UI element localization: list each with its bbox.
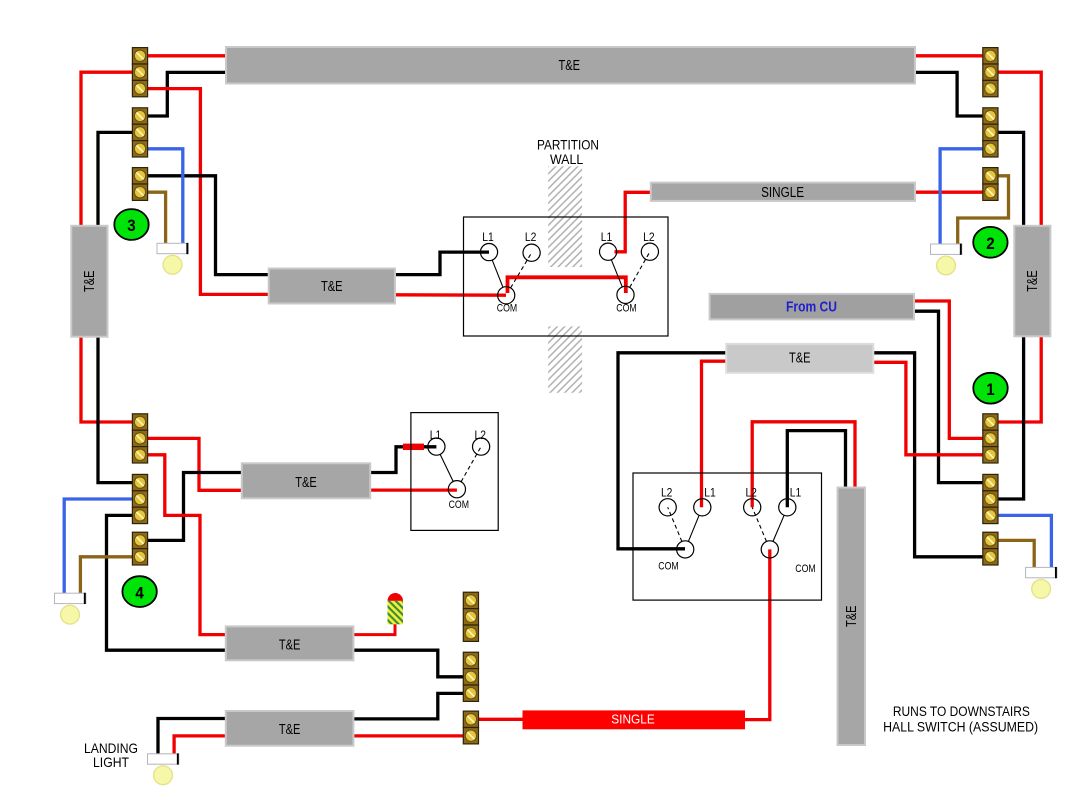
cable From CU [710, 294, 914, 320]
wire brown: TB-R3 screw1 to lamp 2 rose [958, 176, 1009, 245]
cable T&E lower [226, 626, 354, 660]
svg-text:1: 1 [986, 380, 994, 399]
label LANDING LIGHT [84, 740, 138, 770]
terminal block TB-L6 [132, 532, 147, 565]
switch box at partition wall [464, 217, 669, 336]
cable T&E top [226, 47, 915, 84]
wire red: TB-R1 screw2 down right side to TB-R4 screw1 [998, 72, 1042, 422]
svg-text:COM: COM [795, 563, 815, 575]
terminal block TB-L1 [132, 48, 147, 97]
wire red: COM link across partition wall [508, 277, 626, 293]
svg-text:L2: L2 [745, 488, 757, 500]
wire black: TB-L6 screw1 to bedroom T&E cable [147, 473, 243, 541]
svg-text:L2: L2 [661, 488, 673, 500]
svg-text:T&E: T&E [321, 279, 343, 295]
wire brown: TB-R6 screw1 to lamp 1 rose [998, 540, 1035, 567]
wire red: landing lamp T&E to TB-M3 screw2 [352, 734, 464, 737]
svg-text:2: 2 [986, 234, 994, 253]
wire brown: TB-L6 screw2 to lamp 4 rose [80, 557, 133, 594]
wire red: TB-L4 screw2 to bedroom T&E cable [147, 438, 243, 490]
svg-text:L1: L1 [601, 232, 613, 244]
switch SW-B terminal COM [617, 286, 634, 303]
svg-text:L2: L2 [525, 232, 537, 244]
wire red: SINGLE cable to right partition switch L1 [615, 192, 652, 252]
switch SW-D terminal COM [677, 541, 694, 558]
terminal block TB-R6 [983, 532, 998, 565]
terminal block TB-M3 [463, 711, 478, 744]
svg-text:T&E: T&E [844, 605, 860, 627]
switch SW-B terminal L1 [600, 243, 617, 260]
lamp rose 3 top-left [157, 243, 188, 274]
cable T&E landing lamp [226, 711, 354, 746]
lamp rose 1 bottom-right [1026, 567, 1057, 598]
svg-text:From CU: From CU [786, 299, 837, 316]
wire black: landing T&E cable to double switch left COM [618, 353, 728, 549]
lamp rose landing light [148, 753, 179, 784]
svg-text:T&E: T&E [1025, 270, 1041, 292]
switch SW-B levers [611, 252, 650, 288]
lamp rose 2 top-right [931, 244, 962, 275]
wire black: From CU cable to TB-R5 screw1 [913, 311, 983, 482]
switch box bedroom [411, 413, 498, 531]
svg-text:T&E: T&E [82, 270, 98, 292]
wire black: double switch right L1 to downstairs T&E [787, 431, 845, 508]
svg-text:COM: COM [497, 302, 517, 314]
cable SINGLE red [523, 710, 746, 729]
node marker 4 [122, 576, 156, 607]
svg-text:L1: L1 [790, 488, 802, 500]
wire blue: TB-L5 screw2 to lamp 4 rose [64, 499, 133, 593]
svg-text:L2: L2 [475, 430, 487, 442]
node marker 2 [973, 227, 1007, 258]
svg-text:L1: L1 [482, 232, 494, 244]
wire black: landing lamp T&E to landing rose [158, 719, 227, 755]
partition wall upper hatch [548, 166, 582, 267]
switch box double landing [633, 473, 822, 600]
red cap terminator [388, 593, 404, 624]
svg-text:T&E: T&E [279, 637, 301, 653]
svg-text:COM: COM [658, 561, 678, 573]
switch SW-D terminal L2 [659, 499, 676, 516]
terminal block TB-L5 [132, 474, 147, 523]
terminal block TB-M1 [463, 592, 478, 641]
wire red: bedroom T&E cable to switch COM [369, 488, 457, 491]
red sleeve marker on switch L1 wire [403, 444, 424, 450]
cable T&E mid-left [269, 269, 395, 304]
switch SW-E labels [745, 488, 815, 575]
lamp rose 4 mid-left [55, 593, 86, 624]
cable T&E right vertical [1014, 226, 1050, 336]
wire black: TB-L2 screw2 down left side to TB-L5 screw1 [98, 132, 133, 482]
partition wall lower hatch [548, 326, 582, 392]
svg-text:WALL: WALL [550, 151, 583, 167]
wire red: lower T&E cable to red cap terminator [352, 622, 395, 635]
wire red: SINGLE cable to TB-R3 screw2 [914, 191, 983, 194]
wire red: double switch right L2 to downstairs T&E [752, 422, 855, 508]
switch SW-D labels [658, 488, 715, 573]
wire red: landing T&E cable to double switch left L1 [702, 361, 728, 507]
wire black: top T&E cable to TB-L2 screw1 [147, 72, 227, 116]
svg-text:T&E: T&E [295, 475, 317, 491]
wire red: landing T&E cable to TB-R4 screw3 [872, 362, 983, 455]
switch SW-A terminal L1 [480, 244, 497, 261]
terminal block TB-R4 [983, 414, 998, 463]
switch SW-C terminal L2 [473, 438, 490, 455]
svg-text:SINGLE: SINGLE [761, 185, 804, 201]
switch SW-A terminal L2 [523, 244, 540, 261]
cable T&E bedroom [242, 463, 370, 498]
wire black: TB-L3 screw1 to mid T&E cable [147, 176, 270, 275]
wire red: TB-L1 screw1 to top T&E cable [147, 54, 227, 57]
switch SW-E terminal L1 [779, 499, 796, 516]
wire red: TB-L4 screw3 down to lower T&E cable [147, 455, 227, 635]
svg-text:COM: COM [449, 499, 469, 511]
wire red: TB-L1 screw2 down left side to TB-L4 screw1 [81, 72, 133, 422]
terminal block TB-L3 [132, 168, 147, 201]
switch SW-E levers [752, 507, 784, 541]
switch SW-D levers [668, 507, 699, 541]
switch SW-B labels [601, 232, 655, 314]
wire red: double switch right COM to SINGLE red cable [744, 549, 770, 719]
wire brown: TB-L3 screw2 to lamp 3 rose [147, 192, 166, 243]
switch SW-C terminal COM [448, 481, 465, 498]
svg-text:T&E: T&E [279, 722, 301, 738]
node marker 3 [114, 209, 148, 240]
svg-text:RUNS TO DOWNSTAIRS: RUNS TO DOWNSTAIRS [893, 704, 1030, 719]
terminal block TB-R2 [983, 108, 998, 157]
node marker 1 [973, 373, 1007, 404]
wire black: TB-R2 screw2 down right side to TB-R5 screw2 [998, 132, 1024, 499]
svg-text:HALL SWITCH (ASSUMED): HALL SWITCH (ASSUMED) [883, 720, 1038, 735]
wire black: top T&E cable to TB-R2 screw1 [914, 72, 983, 116]
svg-text:3: 3 [127, 216, 135, 235]
wire blue: TB-L2 screw3 to lamp 3 rose [147, 149, 183, 244]
wire red: top T&E cable to TB-R1 screw1 [914, 54, 983, 57]
svg-text:L2: L2 [643, 232, 655, 244]
label RUNS TO DOWNSTAIRS HALL SWITCH [883, 704, 1038, 735]
svg-text:L1: L1 [430, 430, 442, 442]
terminal block TB-L4 [132, 414, 147, 463]
wire black: landing T&E cable to TB-R6 screw2 [872, 353, 983, 557]
wire red: TB-M3 screw1 to SINGLE red cable [477, 718, 524, 721]
svg-text:T&E: T&E [559, 58, 581, 74]
switch SW-E terminal COM [761, 541, 778, 558]
switch SW-A levers [492, 253, 531, 288]
terminal block TB-M2 [463, 652, 478, 701]
switch SW-E terminal L2 [744, 499, 761, 516]
switch SW-C levers [440, 447, 481, 482]
wire black: landing lamp T&E to TB-M2 screw3 [352, 693, 464, 719]
cable T&E left vertical [71, 226, 107, 337]
wire black: TB-L5 screw3 down to lower T&E cable [107, 515, 228, 650]
wire red: mid T&E cable to partition switch COM [394, 293, 506, 297]
switch SW-A terminal COM [498, 287, 515, 304]
wire red: From CU cable to TB-R4 screw2 [913, 301, 983, 438]
terminal block TB-L2 [132, 108, 147, 157]
wire black: lower T&E cable to TB-M2 screw2 [352, 650, 464, 677]
cable T&E landing feed [726, 344, 873, 373]
terminal block TB-R3 [983, 168, 998, 201]
switch SW-A labels [482, 232, 536, 314]
cable T&E downstairs vertical [838, 488, 866, 746]
wire red: landing lamp T&E to landing rose [174, 736, 227, 754]
svg-text:LIGHT: LIGHT [93, 754, 129, 770]
svg-text:4: 4 [135, 583, 144, 602]
switch SW-B terminal L2 [641, 243, 658, 260]
cable SINGLE top [651, 183, 915, 201]
svg-text:SINGLE: SINGLE [611, 712, 655, 727]
svg-text:L1: L1 [704, 488, 716, 500]
wire blue: TB-R2 screw3 to lamp 2 rose [940, 149, 983, 245]
wire black: mid T&E cable to partition switch L1 [394, 252, 489, 275]
svg-text:COM: COM [616, 302, 636, 314]
terminal block TB-R5 [983, 474, 998, 523]
svg-text:T&E: T&E [789, 351, 811, 367]
wire blue: TB-R5 screw3 to lamp 1 rose [998, 515, 1052, 567]
switch SW-C labels [430, 430, 486, 511]
switch SW-C terminal L1 [428, 438, 445, 455]
terminal block TB-R1 [983, 48, 998, 97]
wire red: TB-L1 screw3 to mid T&E cable [147, 89, 270, 295]
wire black: bedroom T&E cable to switch L1 with red sleeve [369, 447, 436, 473]
switch SW-D terminal L1 [694, 499, 711, 516]
